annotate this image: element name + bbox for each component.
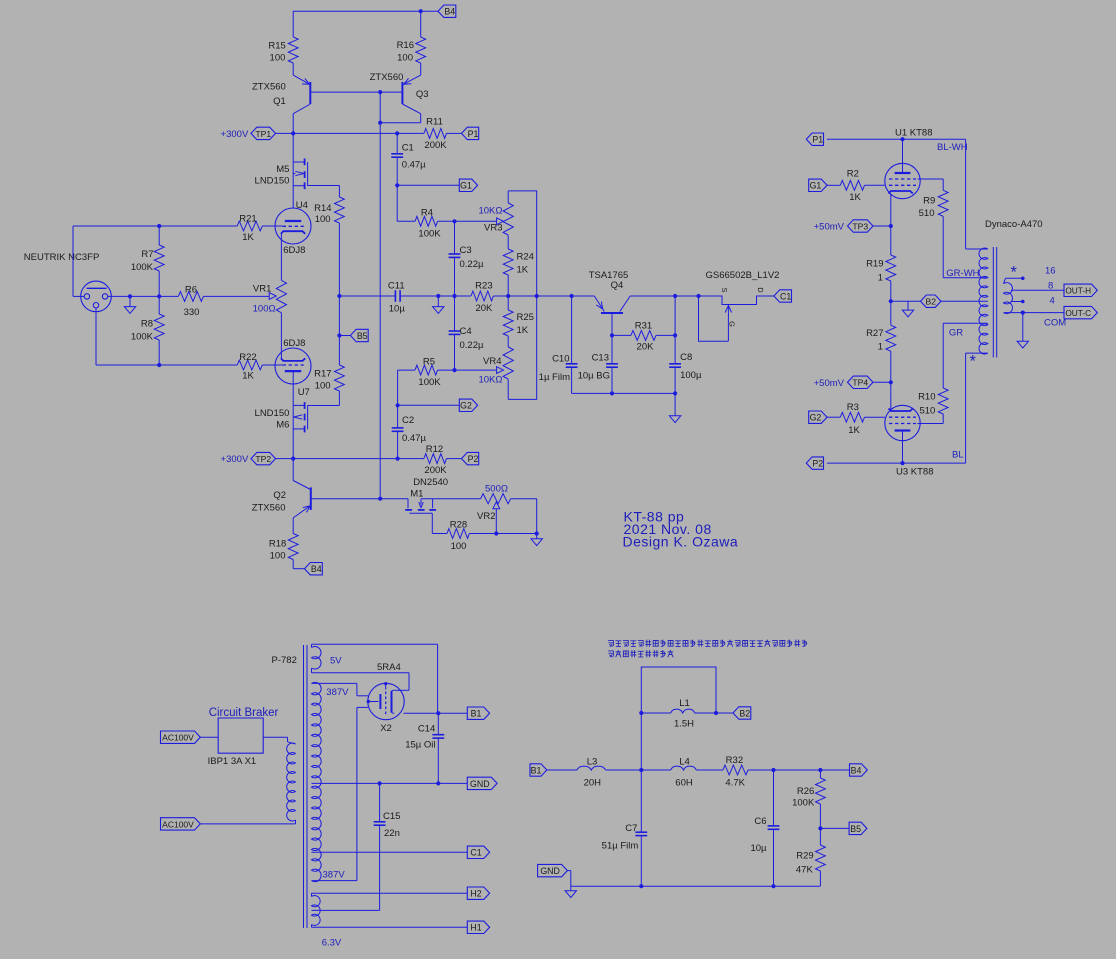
svg-text:G2: G2 xyxy=(460,401,472,411)
capacitor C8 100u xyxy=(674,296,676,364)
svg-text:ZTX560: ZTX560 xyxy=(252,81,286,92)
svg-text:0.47µ: 0.47µ xyxy=(402,160,426,171)
resistor R8 xyxy=(158,296,160,314)
resistor R9 screen xyxy=(918,178,944,180)
svg-text:R16: R16 xyxy=(397,40,414,51)
wire B5 tap xyxy=(818,826,822,830)
wire XLR pin2 to input node xyxy=(73,295,84,297)
svg-text:B2: B2 xyxy=(739,708,750,718)
svg-text:C13: C13 xyxy=(592,352,609,363)
resistor R18 xyxy=(288,534,298,560)
svg-text:R22: R22 xyxy=(239,352,256,363)
svg-text:R26: R26 xyxy=(797,786,814,797)
mosfet M5 LND150 xyxy=(292,133,294,162)
svg-text:100: 100 xyxy=(270,551,286,562)
svg-text:C1: C1 xyxy=(470,848,481,858)
resistor R21 xyxy=(237,221,262,231)
svg-text:G: G xyxy=(728,321,737,327)
resistor R19 xyxy=(890,226,892,255)
wire GR-WH tap xyxy=(943,277,988,279)
net label B5 (mid) xyxy=(350,329,368,341)
resistor R17 xyxy=(335,365,345,391)
capacitor C2 0.47u xyxy=(397,405,399,428)
svg-text:R15: R15 xyxy=(268,41,285,52)
net label OUT-H xyxy=(1064,284,1097,296)
wire center rail Q3 base to Q2 base xyxy=(379,92,381,499)
net label B2 (transformer) xyxy=(921,295,942,307)
svg-text:R31: R31 xyxy=(635,320,652,331)
svg-text:GS66502B_L1V2: GS66502B_L1V2 xyxy=(706,270,780,281)
svg-text:+300V: +300V xyxy=(221,129,249,140)
wire 6.3V top to H2 xyxy=(312,892,468,894)
svg-text:DN2540: DN2540 xyxy=(413,477,448,488)
net label TP4 xyxy=(848,376,874,388)
svg-text:1K: 1K xyxy=(242,232,254,243)
resistor R28 xyxy=(447,529,469,539)
potentiometer VR1 100R xyxy=(276,280,286,312)
net label H2 xyxy=(467,887,489,899)
svg-text:22n: 22n xyxy=(384,828,400,839)
svg-text:4.7K: 4.7K xyxy=(725,777,745,788)
svg-text:R29: R29 xyxy=(796,850,813,861)
svg-text:C1: C1 xyxy=(780,291,791,301)
wire middle node rail xyxy=(339,295,395,297)
transformer T1 Dynaco-A470 core xyxy=(992,247,994,358)
wire 6.3V bottom to H1 xyxy=(312,926,468,928)
resistor R10 screen xyxy=(943,322,988,324)
potentiometer VR2 500R xyxy=(481,494,511,504)
svg-text:U3 KT88: U3 KT88 xyxy=(896,467,934,478)
svg-text:100: 100 xyxy=(451,541,467,552)
net label G1 (right) xyxy=(809,179,827,191)
svg-text:R9: R9 xyxy=(923,195,935,206)
capacitor C3 0.22u xyxy=(454,221,456,254)
net label G1 (left) xyxy=(459,179,477,191)
svg-text:10µ BG: 10µ BG xyxy=(578,371,610,382)
net label TP3 xyxy=(848,220,874,232)
svg-text:51µ Film: 51µ Film xyxy=(602,840,639,851)
wire M1 drain rail to VR2 xyxy=(421,498,481,500)
wire Q2 base to M1 gate xyxy=(311,498,408,500)
svg-text:R2: R2 xyxy=(847,169,859,180)
svg-text:R8: R8 xyxy=(141,319,153,330)
ground at C8 xyxy=(674,393,676,415)
svg-text:M5: M5 xyxy=(276,164,289,175)
svg-text:R12: R12 xyxy=(426,444,443,455)
inductor L1 1.5H xyxy=(641,712,670,714)
wire HV center tap to GND xyxy=(312,782,468,784)
svg-text:R19: R19 xyxy=(866,259,883,270)
potentiometer VR4 10K xyxy=(503,347,513,379)
ground at B2 line xyxy=(907,301,909,310)
svg-text:510: 510 xyxy=(919,405,935,416)
transistor Q1 ZTX560 xyxy=(309,82,311,104)
wire net B4 top rail xyxy=(293,10,421,12)
svg-text:C15: C15 xyxy=(383,811,400,822)
svg-text:R27: R27 xyxy=(866,328,883,339)
svg-text:P1: P1 xyxy=(812,135,823,145)
svg-text:5RA4: 5RA4 xyxy=(377,662,401,673)
net label B1 (psu) xyxy=(467,707,489,719)
wire TP4 node xyxy=(873,381,891,383)
svg-text:1K: 1K xyxy=(517,265,529,276)
svg-text:B4: B4 xyxy=(851,765,862,775)
svg-text:VR3: VR3 xyxy=(484,223,502,234)
transistor Q4 TSA1765 xyxy=(601,312,623,314)
svg-text:LND150: LND150 xyxy=(255,408,290,419)
svg-text:TP4: TP4 xyxy=(852,378,868,388)
capacitor C6 10u xyxy=(773,770,775,826)
wire breaker to primary xyxy=(263,736,287,738)
svg-text:R14: R14 xyxy=(314,203,331,214)
net label H1 xyxy=(467,921,489,933)
svg-text:U1 KT88: U1 KT88 xyxy=(895,128,933,139)
svg-text:100: 100 xyxy=(397,53,413,64)
circuit breaker X1 box xyxy=(218,718,263,753)
svg-text:510: 510 xyxy=(919,208,935,219)
wire 387V bottom to X2 plate xyxy=(312,880,357,882)
wire L1 bypass bracket xyxy=(641,667,716,713)
triode U4 6DJ8 upper half xyxy=(275,208,311,244)
resistor R4 xyxy=(396,185,398,221)
svg-text:L4: L4 xyxy=(679,756,690,767)
svg-text:C6: C6 xyxy=(754,816,766,827)
net label GND (psu) xyxy=(467,777,497,789)
wire net G1 xyxy=(397,184,459,186)
svg-text:LND150: LND150 xyxy=(255,175,290,186)
svg-text:10µ: 10µ xyxy=(389,303,406,314)
net label TP1 xyxy=(251,127,276,139)
capacitor C11 10u xyxy=(394,290,396,302)
svg-text:Q4: Q4 xyxy=(611,280,624,291)
mosfet M6 LND150 xyxy=(293,404,304,406)
transistor Q3 ZTX560 xyxy=(401,82,403,104)
svg-text:100: 100 xyxy=(315,380,331,391)
svg-text:GR: GR xyxy=(949,328,963,339)
ground at XLR shield xyxy=(129,296,131,306)
svg-text:15µ Oil: 15µ Oil xyxy=(405,740,435,751)
net label P2 xyxy=(462,452,479,464)
svg-text:1K: 1K xyxy=(849,192,861,203)
wire VR3-VR4 bracket xyxy=(508,191,537,400)
wire AC100V to breaker xyxy=(200,736,218,738)
resistor R26 xyxy=(819,770,821,778)
svg-text:NEUTRIK NC3FP: NEUTRIK NC3FP xyxy=(24,252,99,263)
net label B4 (right) xyxy=(850,764,868,776)
wire net TP1/+300V rail xyxy=(276,132,424,134)
svg-text:R25: R25 xyxy=(517,312,534,323)
resistor R3 xyxy=(827,416,840,418)
resistor R23 xyxy=(471,291,493,301)
svg-text:AC100V: AC100V xyxy=(162,819,194,829)
transformer T2 6.3V winding xyxy=(312,896,321,926)
capacitor C15 22n xyxy=(379,783,381,821)
svg-text:ZTX560: ZTX560 xyxy=(370,72,404,83)
svg-text:ZTX560: ZTX560 xyxy=(252,502,286,513)
svg-text:Q2: Q2 xyxy=(273,490,286,501)
svg-text:B4: B4 xyxy=(444,7,455,17)
svg-text:R5: R5 xyxy=(423,357,435,368)
resistor R25 xyxy=(507,296,509,310)
net label G2 (left) xyxy=(459,399,477,411)
wire 387V top to X2 plate xyxy=(312,682,357,684)
svg-text:B5: B5 xyxy=(850,824,861,834)
svg-text:10KΩ: 10KΩ xyxy=(478,374,502,385)
svg-text:100Ω: 100Ω xyxy=(253,304,276,315)
wire choke node vertical xyxy=(639,768,643,772)
wire TP3 node xyxy=(873,225,891,227)
resistor R6 xyxy=(159,295,178,297)
svg-text:C7: C7 xyxy=(625,823,637,834)
svg-text:4: 4 xyxy=(1050,296,1055,307)
svg-text:10KΩ: 10KΩ xyxy=(478,205,502,216)
svg-text:U7: U7 xyxy=(298,387,310,398)
svg-text:20H: 20H xyxy=(584,777,602,788)
svg-text:Circuit Braker: Circuit Braker xyxy=(209,707,279,719)
svg-text:S: S xyxy=(720,287,729,292)
inductor L4 60H xyxy=(671,766,697,770)
svg-text:387V: 387V xyxy=(323,870,346,881)
svg-text:6.3V: 6.3V xyxy=(322,938,342,949)
wire net P1 to U1 anode xyxy=(827,138,966,140)
svg-text:X2: X2 xyxy=(380,723,392,734)
pentode U1 KT88 xyxy=(885,163,920,198)
net label B4 (top) xyxy=(421,10,438,12)
svg-text:1.5H: 1.5H xyxy=(674,719,694,730)
svg-text:C11: C11 xyxy=(388,281,405,292)
resistor R29 xyxy=(816,845,826,871)
transformer T2 core xyxy=(303,645,305,928)
potentiometer VR3 10K xyxy=(507,191,509,203)
svg-text:1: 1 xyxy=(878,273,883,284)
net label G2 (right) xyxy=(809,411,827,423)
gan fet GS66502B_L1V2 xyxy=(675,295,698,297)
wire input top rail xyxy=(73,225,237,227)
svg-text:387V: 387V xyxy=(326,687,349,698)
capacitor C4 0.22u xyxy=(454,296,456,331)
svg-text:TP3: TP3 xyxy=(852,221,868,231)
svg-text:C4: C4 xyxy=(460,326,472,337)
transformer T1 primary winding xyxy=(979,248,988,354)
resistor R24 xyxy=(503,249,513,275)
capacitor C13 10u BG xyxy=(611,335,613,363)
svg-text:G1: G1 xyxy=(460,181,472,191)
svg-text:VR4: VR4 xyxy=(483,356,501,367)
svg-text:100: 100 xyxy=(315,214,331,225)
svg-text:R28: R28 xyxy=(450,519,467,530)
ground at VR2/R28 xyxy=(536,534,538,539)
svg-text:R24: R24 xyxy=(517,252,534,263)
svg-text:100K: 100K xyxy=(418,377,441,388)
capacitor C1 0.47u xyxy=(396,133,398,153)
wire 5V bottom to X2 filament xyxy=(312,672,410,674)
svg-text:R32: R32 xyxy=(726,755,743,766)
capacitor C14 15u Oil xyxy=(437,713,439,735)
resistor R5 xyxy=(397,370,399,405)
svg-text:C14: C14 xyxy=(418,723,435,734)
svg-text:TP1: TP1 xyxy=(255,129,271,139)
capacitor C10 1u Film xyxy=(571,296,573,364)
svg-text:1: 1 xyxy=(878,342,883,353)
svg-text:1K: 1K xyxy=(517,325,529,336)
rectifier X2 5RA4 xyxy=(368,683,404,719)
svg-text:R6: R6 xyxy=(185,284,197,295)
svg-text:100K: 100K xyxy=(792,797,815,808)
wire R14/R17 node to B5 xyxy=(338,296,340,336)
wire XLR pin3 to bottom rail xyxy=(95,308,97,365)
svg-text:C1: C1 xyxy=(402,143,414,154)
svg-text:Q3: Q3 xyxy=(416,89,429,100)
net label B1 (choke input) xyxy=(530,764,547,776)
wire net B2 tap xyxy=(889,299,893,303)
svg-text:VR2: VR2 xyxy=(477,511,495,522)
net label B2 (choke) xyxy=(733,707,751,719)
svg-text:AC100V: AC100V xyxy=(162,733,194,743)
svg-text:H2: H2 xyxy=(470,889,481,899)
resistor R16 xyxy=(420,11,422,37)
svg-text:OUT-H: OUT-H xyxy=(1065,286,1091,296)
transformer T2 P-782 primary winding xyxy=(287,743,296,821)
net label C1 (psu) xyxy=(467,846,489,858)
resistor R11 xyxy=(424,129,447,139)
resistor R14 xyxy=(335,197,345,223)
svg-text:20K: 20K xyxy=(475,303,493,314)
svg-text:R3: R3 xyxy=(847,402,859,413)
wire secondary tap 4 xyxy=(1011,301,1023,303)
ground at C11 xyxy=(437,296,439,307)
resistor R2 xyxy=(827,184,840,186)
net label TP2 xyxy=(251,452,276,464)
svg-text:BL-WH: BL-WH xyxy=(937,142,968,153)
svg-text:C8: C8 xyxy=(680,352,692,363)
svg-text:R11: R11 xyxy=(426,117,443,128)
capacitor C7 51u Film xyxy=(635,831,647,833)
wire secondary common to OUT-C xyxy=(1004,312,1065,314)
net label P1 (right) xyxy=(806,133,823,145)
svg-text:R18: R18 xyxy=(269,539,286,550)
svg-text:B1: B1 xyxy=(471,709,482,719)
resistor R22 xyxy=(237,360,262,370)
wire secondary tap 8 to OUT-H xyxy=(1011,289,1064,291)
svg-text:0.22µ: 0.22µ xyxy=(460,259,484,270)
svg-text:6DJ8: 6DJ8 xyxy=(283,245,305,256)
svg-text:200K: 200K xyxy=(424,140,447,151)
svg-text:200K: 200K xyxy=(424,465,447,476)
wire filter bottom rail xyxy=(571,885,821,887)
net label AC100V (top) xyxy=(161,731,201,743)
svg-text:R23: R23 xyxy=(475,281,492,292)
svg-text:60H: 60H xyxy=(675,777,693,788)
svg-text:D: D xyxy=(756,287,765,293)
svg-text:B5: B5 xyxy=(357,331,368,341)
svg-text:*: * xyxy=(970,353,977,371)
net label GND (filter) xyxy=(538,864,568,876)
wire net G2 xyxy=(398,404,460,406)
svg-text:B1: B1 xyxy=(531,765,542,775)
svg-text:U4: U4 xyxy=(296,200,308,211)
svg-text:VR1: VR1 xyxy=(253,283,271,294)
resistor R31 xyxy=(612,334,631,336)
svg-text:Dynaco-A470: Dynaco-A470 xyxy=(985,219,1043,230)
svg-text:GND: GND xyxy=(470,779,490,789)
svg-text:100: 100 xyxy=(270,53,286,64)
svg-text:+50mV: +50mV xyxy=(814,222,845,233)
svg-text:1K: 1K xyxy=(242,371,254,382)
svg-text:B4: B4 xyxy=(311,564,322,574)
svg-text:L1: L1 xyxy=(679,698,690,709)
resistor R15 xyxy=(292,11,294,37)
svg-text:47K: 47K xyxy=(796,865,814,876)
svg-text:500Ω: 500Ω xyxy=(485,483,508,494)
note japanese line1 xyxy=(608,640,807,657)
svg-text:100K: 100K xyxy=(131,262,154,273)
wire B2 to primary center tap xyxy=(941,300,988,302)
svg-text:6DJ8: 6DJ8 xyxy=(283,338,305,349)
svg-text:P-782: P-782 xyxy=(272,655,297,666)
svg-text:100µ: 100µ xyxy=(680,370,702,381)
svg-text:R7: R7 xyxy=(141,249,153,260)
ground at filter xyxy=(570,886,572,891)
svg-text:C10: C10 xyxy=(552,354,569,365)
inductor L3 20H xyxy=(547,769,577,771)
wire secondary tap 16 xyxy=(1006,277,1023,279)
transistor Q2 ZTX560 xyxy=(310,487,312,510)
svg-text:Design K. Ozawa: Design K. Ozawa xyxy=(623,534,739,550)
wire BL-WH to primary top xyxy=(965,139,967,249)
svg-text:Q1: Q1 xyxy=(273,96,286,107)
net label OUT-C xyxy=(1064,306,1097,318)
svg-text:1µ Film: 1µ Film xyxy=(539,372,570,383)
svg-text:0.47µ: 0.47µ xyxy=(402,433,426,444)
svg-text:IBP1 3A X1: IBP1 3A X1 xyxy=(208,756,257,767)
ground at secondary COM xyxy=(1022,313,1024,342)
connector J1 NEUTRIK NC3FP XLR xyxy=(81,281,112,312)
wire net P2 to primary bottom xyxy=(827,462,966,464)
transformer T1 secondary winding xyxy=(1004,283,1013,314)
wire VR3/VR4 chain node xyxy=(508,295,571,297)
wire Q1-Q3 base link xyxy=(310,91,402,93)
svg-text:P1: P1 xyxy=(468,129,479,139)
svg-text:330: 330 xyxy=(184,307,200,318)
svg-text:R17: R17 xyxy=(314,368,331,379)
resistor R12 xyxy=(424,454,447,464)
transformer T2 5V winding xyxy=(312,646,322,669)
net label C1 (drain) xyxy=(774,290,792,302)
svg-text:G1: G1 xyxy=(810,181,822,191)
svg-text:10µ: 10µ xyxy=(750,843,767,854)
net label P1 xyxy=(462,127,479,139)
wire X2 cathode to B1 xyxy=(404,712,468,714)
pentode U3 KT88 xyxy=(885,405,920,440)
svg-text:GND: GND xyxy=(540,866,560,876)
triode U7 6DJ8 lower half xyxy=(275,348,311,384)
svg-text:R10: R10 xyxy=(918,392,935,403)
svg-text:H1: H1 xyxy=(470,923,481,933)
svg-text:COM: COM xyxy=(1044,318,1066,329)
wire 5V top to B1 node xyxy=(312,643,438,645)
wire C10-C13-C8 bottom xyxy=(572,392,676,394)
svg-text:G2: G2 xyxy=(810,413,822,423)
svg-text:P2: P2 xyxy=(812,459,823,469)
svg-text:20K: 20K xyxy=(637,341,655,352)
wire primary bottom to AC100V xyxy=(295,820,297,824)
net label B4 (bottom) xyxy=(305,563,323,575)
svg-text:OUT-C: OUT-C xyxy=(1065,308,1091,318)
svg-text:L3: L3 xyxy=(587,756,598,767)
wire net TP2 rail xyxy=(276,458,424,460)
svg-text:+300V: +300V xyxy=(221,454,249,465)
svg-text:B2: B2 xyxy=(925,297,936,307)
